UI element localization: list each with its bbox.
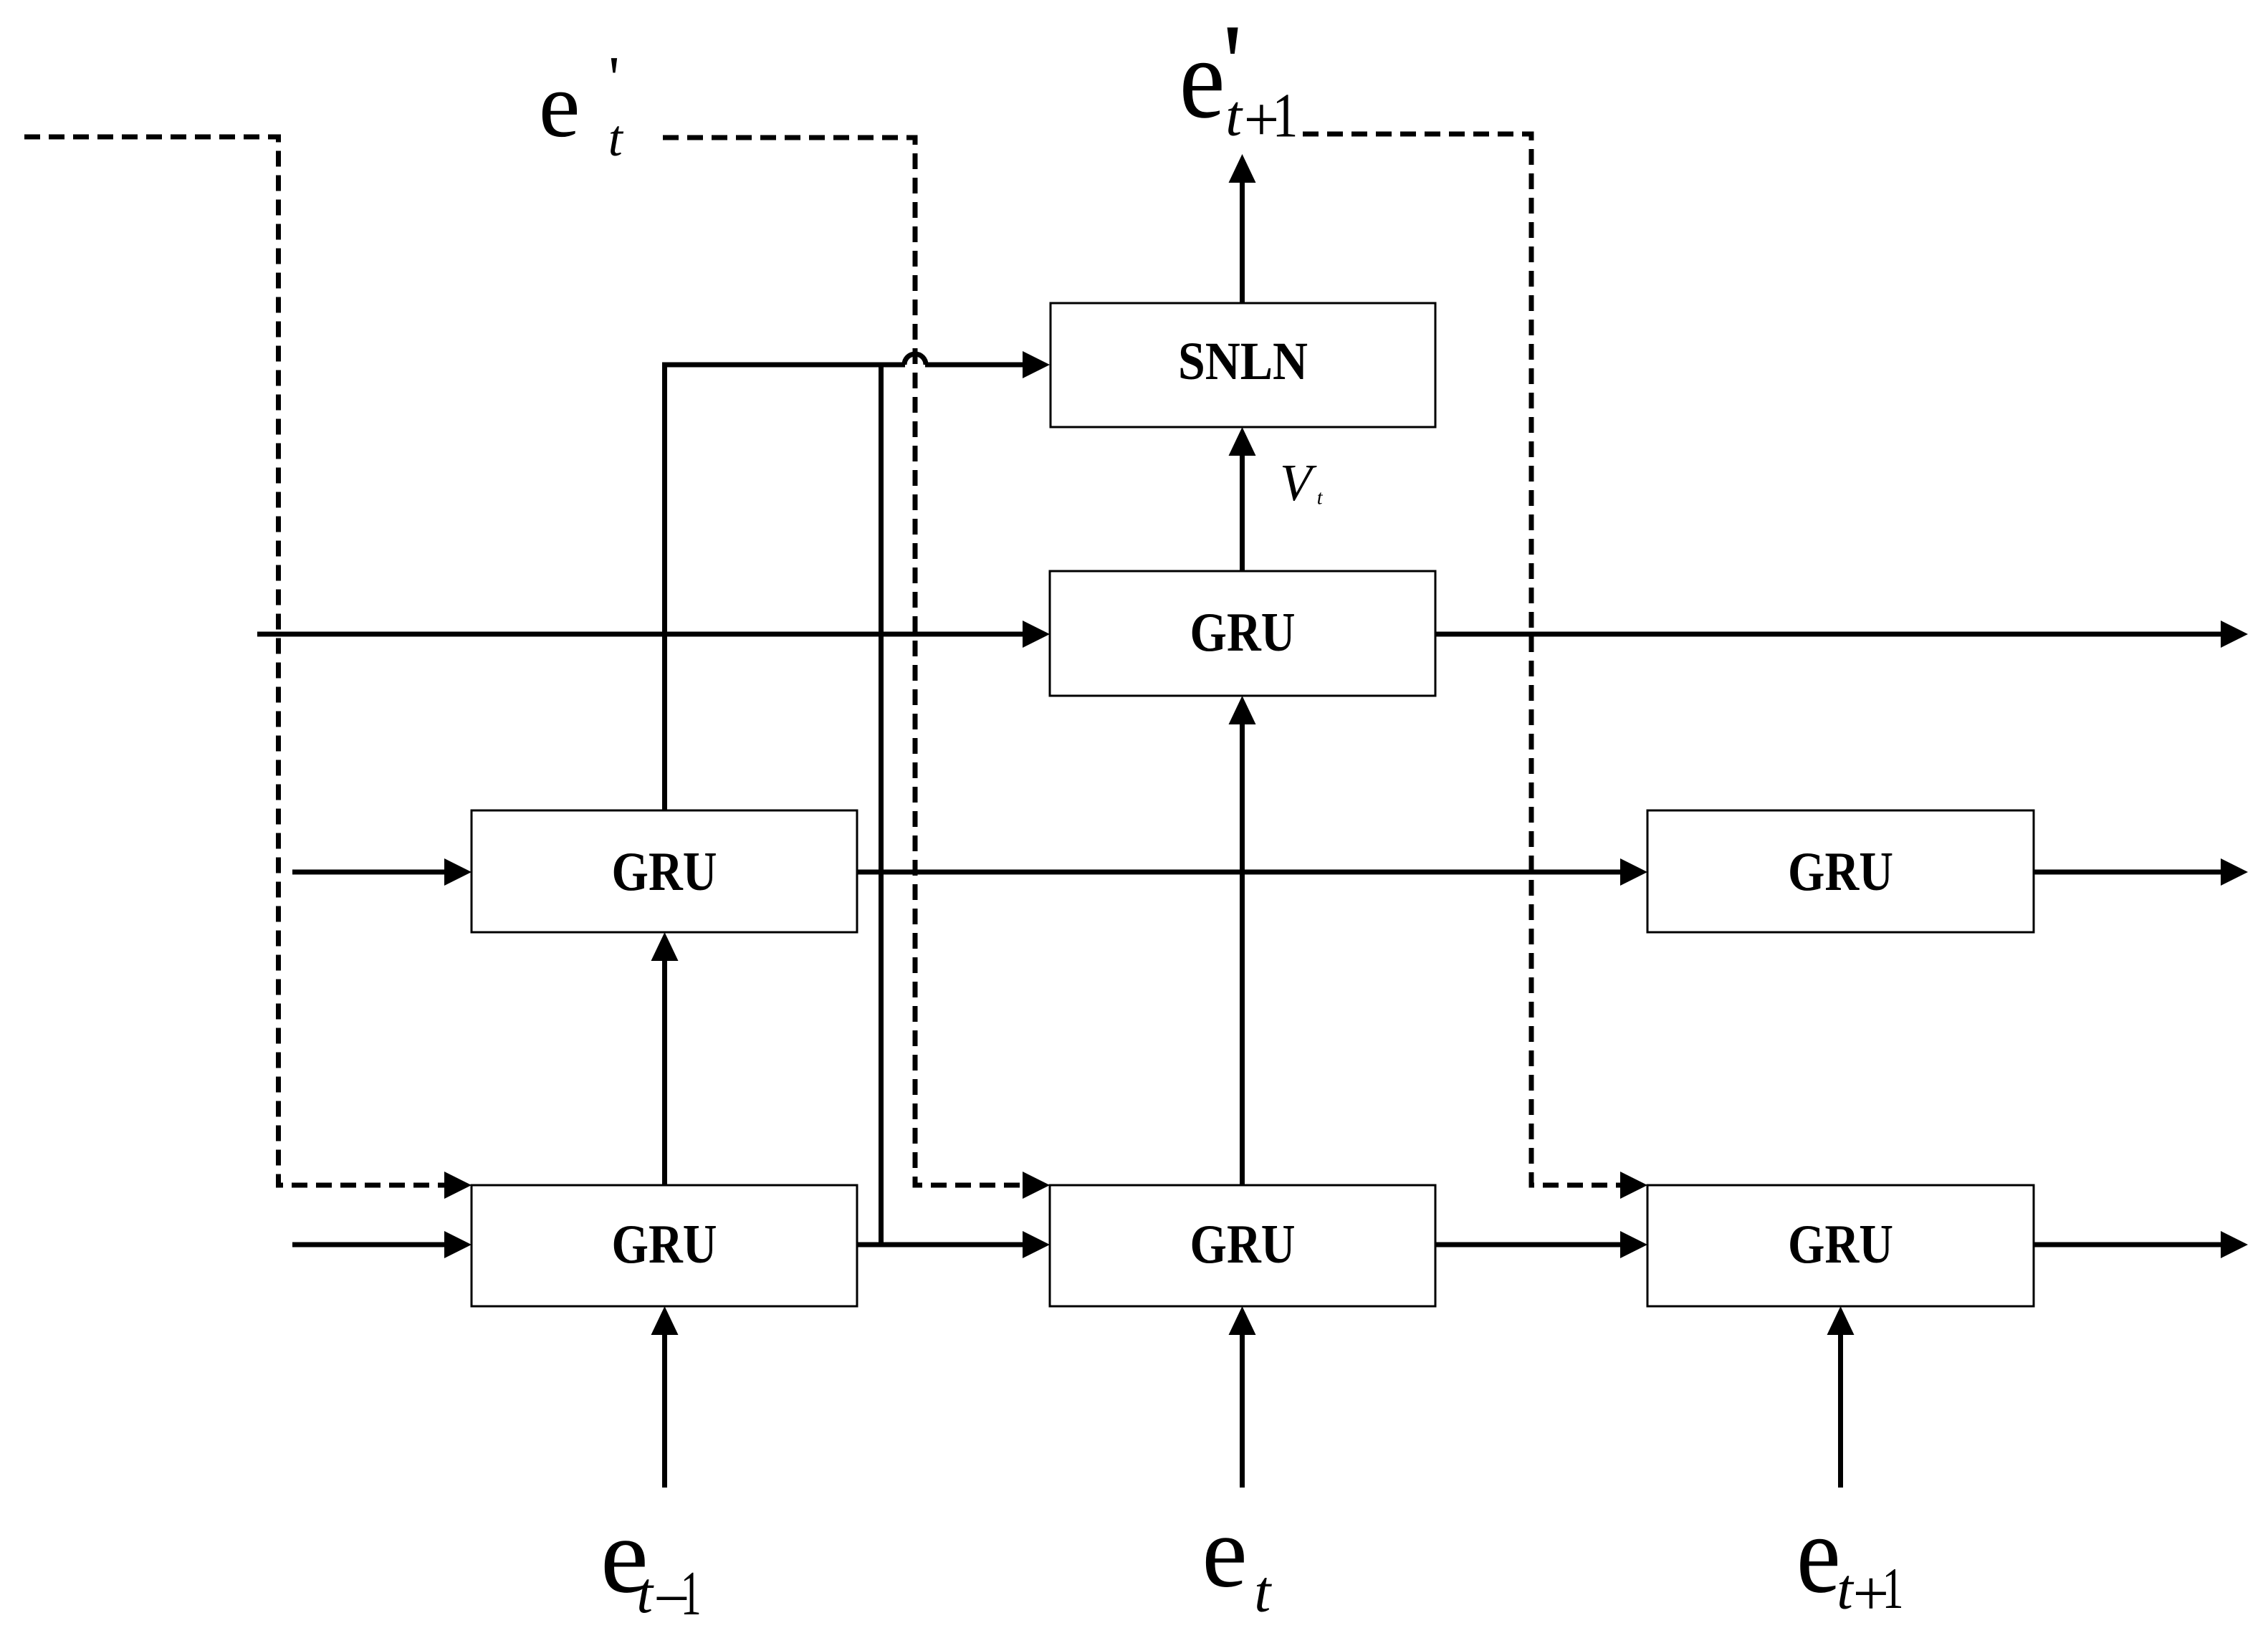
svg-text:e: e xyxy=(1796,1492,1841,1616)
svg-text:1: 1 xyxy=(681,1559,702,1629)
svg-text:t: t xyxy=(1254,1558,1272,1624)
svg-text:GRU: GRU xyxy=(1190,1213,1296,1275)
svg-text:GRU: GRU xyxy=(612,841,717,902)
svg-text:t: t xyxy=(608,110,624,167)
svg-text:t: t xyxy=(636,1560,654,1625)
svg-text:e: e xyxy=(1180,14,1225,142)
svg-text:e: e xyxy=(539,54,580,157)
svg-text:SNLN: SNLN xyxy=(1178,332,1308,391)
svg-text:GRU: GRU xyxy=(1788,841,1893,902)
svg-text:1: 1 xyxy=(1273,81,1298,150)
svg-text:1: 1 xyxy=(1882,1556,1904,1621)
svg-text:GRU: GRU xyxy=(1190,601,1296,663)
svg-text:t: t xyxy=(1317,487,1324,509)
svg-text:e: e xyxy=(1202,1495,1247,1609)
svg-text:GRU: GRU xyxy=(1788,1213,1893,1275)
svg-text:V: V xyxy=(1280,454,1317,512)
svg-text:GRU: GRU xyxy=(612,1213,717,1275)
svg-text:t: t xyxy=(1225,83,1243,148)
svg-text:': ' xyxy=(608,43,620,112)
